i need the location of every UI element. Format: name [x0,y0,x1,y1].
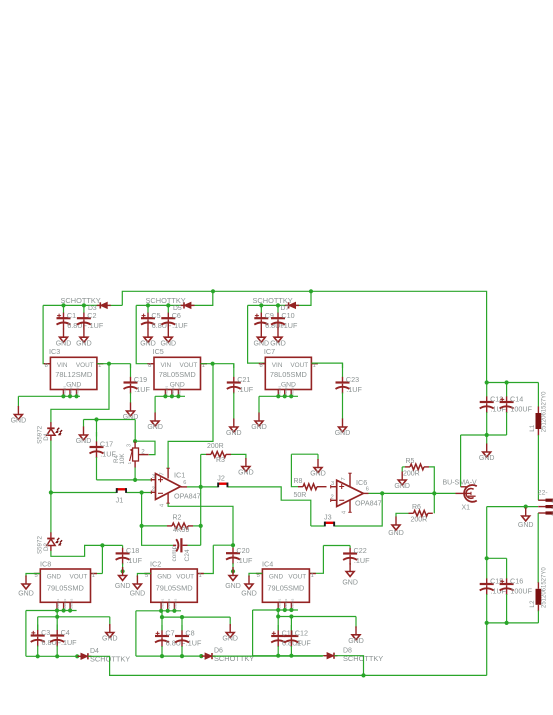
wire J2 to IC6 -in net [228,487,311,526]
svg-text:.1UF: .1UF [126,556,142,565]
resistor R5 [405,464,429,470]
wire IC1 V- to -5V rail [168,503,233,545]
svg-text:200R: 200R [411,517,428,524]
capacitor C5 [141,305,172,329]
svg-text:3: 3 [152,474,155,480]
wire C12 top pin [290,617,292,631]
label 200R R6 [411,517,428,524]
node C12 bottom [289,654,293,658]
ground IC4 [241,576,257,598]
node C2 tap [82,303,86,307]
svg-text:6: 6 [183,480,186,486]
wire IC4 mid rail [278,616,356,618]
SMA connector X1 [443,479,478,511]
connector pin 3 [538,511,553,516]
wire gnd stub C13 [486,435,488,444]
wire D2 to -5V IC8 [51,545,103,556]
svg-text:C4: C4 [61,628,70,637]
node C10 tap [276,303,280,307]
capacitor C12 [284,625,311,648]
svg-text:C14: C14 [510,395,523,404]
svg-text:GND: GND [147,424,163,431]
resistor R6 [409,510,433,516]
svg-text:.1UF: .1UF [172,321,188,330]
jumper J3 [324,513,335,527]
capacitor C23 [336,363,363,394]
wire block2 rail [136,304,184,306]
label R6 [412,504,421,511]
resistor R2 [167,523,193,529]
label IC3 [49,347,60,356]
svg-text:IC3: IC3 [49,347,60,356]
capacitor C9 [254,305,285,329]
node IC2 pin [172,609,176,613]
wire C11 pin vertical [277,610,279,631]
capacitor C20 [226,545,253,565]
wire IC4 gnd pin [249,573,262,577]
wire D7 to top rail [296,291,312,305]
wire C11 bottom [277,646,279,656]
svg-text:GND: GND [157,574,172,581]
svg-text:GND: GND [342,579,358,586]
capacitor C10 [271,305,298,329]
svg-text:GND: GND [348,638,364,645]
capacitor C4 [50,625,77,648]
wire D8 down [334,656,363,676]
svg-text:100UF: 100UF [510,405,532,414]
wire IC1 output [187,486,218,488]
wire C17 top pin [96,420,98,437]
node IC4 pin [289,608,293,612]
node IC5 gnd pin [163,394,167,398]
node IC3 gnd pin [61,394,65,398]
voltage regulator [44,357,104,396]
label D6 [214,648,223,655]
wire IC7 gnd pins rail [259,395,298,397]
wire to gnd IC4 mid [355,617,357,629]
wire +input line [97,479,152,481]
node C8 bottom [180,654,184,658]
wire output to X1 [369,492,456,494]
svg-text:VIN: VIN [161,362,172,369]
svg-text:GND@2: GND@2 [284,598,288,609]
svg-text:GND: GND [238,470,254,477]
node +in junction [133,478,137,482]
node R2 right junction [199,524,203,528]
wire IC5 gnd pins rail [155,395,185,397]
svg-text:GND: GND [479,455,495,462]
wire to gnd C17net [83,420,85,428]
svg-text:C3: C3 [41,628,50,637]
node IC2 pin [159,609,163,613]
svg-text:GND: GND [269,574,284,581]
op-amp IC1 [156,474,181,500]
capacitor C24 [171,538,191,561]
svg-text:comp: comp [171,545,178,561]
svg-text:VOUT: VOUT [180,362,198,369]
node D1-D2 junction [49,490,53,494]
svg-text:10K: 10K [119,453,126,465]
schottky diode D6 [202,653,216,659]
svg-text:1: 1 [313,363,316,369]
wire R6 left to gnd [396,513,409,517]
ground C13C14 [479,444,495,463]
label IC8 [40,560,51,569]
R8 right pin [322,486,327,488]
svg-text:C12: C12 [295,629,308,638]
wire IC1 V+ from IC5 [168,364,213,468]
svg-text:L2: L2 [529,600,536,608]
wire IC4 bottom rail [253,655,326,657]
capacitor C14 [500,383,533,414]
op-amp IC1 pins [151,468,201,507]
wire IC4 VOUT up [309,546,323,574]
node IC7 gnd pin [283,394,287,398]
svg-text:79L05SMD: 79L05SMD [267,584,304,593]
label SCHOTTKY D4 [90,654,130,663]
svg-text:IC4: IC4 [262,560,273,569]
wire +12V top rail [122,291,486,382]
wire IC8 VOUT [91,573,103,575]
wire R3 to gnd [231,454,246,458]
svg-text:78L12SMD: 78L12SMD [55,370,92,379]
svg-text:IC2: IC2 [150,560,161,569]
node C13 top [485,380,489,384]
wire feedback vertical [200,454,202,545]
wire IC2 mid rail [162,616,230,618]
wire IC2 gnd pin [137,574,150,578]
svg-text:C21: C21 [237,375,250,384]
svg-text:GND: GND [310,471,326,478]
wire block1 rail [43,304,99,306]
svg-text:.1UF: .1UF [186,639,202,648]
svg-text:.1UF: .1UF [238,385,254,394]
wire D6 to D8 [212,655,323,657]
node C12 top [289,614,293,618]
wire to gnd IC2 mid [229,617,231,626]
wire IC8 left drop [25,611,27,657]
wire C12 bottom [290,646,292,656]
svg-text:R8: R8 [294,478,303,485]
wire D4 to common rail [88,656,363,675]
label 200R R3 [207,443,224,450]
wire J1 tap down to C24 [142,493,173,546]
wire C14 bottom [506,412,508,435]
wire D1-D2 vertical [50,493,52,533]
wire C18 to gnd [122,563,124,571]
wire IC8 pins rail [26,610,77,612]
resistor R8 [298,484,322,490]
svg-text:1: 1 [311,573,314,579]
label R3 [216,457,225,464]
svg-text:X1: X1 [462,505,471,512]
node J1 feedback tap [140,490,144,494]
node IC5 gnd pin [170,394,174,398]
svg-text:GND@2: GND@2 [63,598,67,609]
node IC7 gnd pin [276,394,280,398]
svg-text:4: 4 [342,511,348,514]
svg-text:7: 7 [341,477,347,480]
node C15 top [485,556,489,560]
svg-text:C10: C10 [281,311,294,320]
wire to gnd IC8 mid [109,617,111,626]
wire R8 left [291,454,298,487]
svg-text:8: 8 [148,363,151,369]
svg-text:BU-SMA-V: BU-SMA-V [443,479,478,486]
svg-text:R3: R3 [216,457,225,464]
wire rail to IC3 VIN [43,305,50,363]
svg-text:8: 8 [259,363,262,369]
label SCHOTTKY D8 [343,654,383,663]
svg-text:C16: C16 [510,577,523,586]
svg-text:GND: GND [388,530,404,537]
ground IC8 mid [102,624,118,643]
ground C9 [254,329,270,348]
wire J3 net right [335,493,383,526]
wire pot wiper loop [135,441,155,454]
wire R5 to output [429,467,434,494]
svg-text:1: 1 [127,461,132,464]
node IC2 pin [166,609,170,613]
wire X1 shield up [460,435,462,487]
capacitor C18 [116,545,143,565]
wire C20 to gnd [232,563,234,571]
label D8 [343,648,352,655]
node C16 bottom junction [505,621,509,625]
label IC4 [262,560,273,569]
svg-text:SCHOTTKY: SCHOTTKY [214,654,254,663]
wire to gnd b2 [154,396,156,413]
wire C8 top pin [181,617,183,630]
svg-text:GND: GND [335,430,351,437]
svg-text:VOUT: VOUT [288,574,306,581]
X1 shield pin [461,486,467,488]
node C11 mid tap [276,614,280,618]
capacitor C15 [480,558,507,595]
svg-text:200R: 200R [207,443,224,450]
node R5 R6 junction [432,491,436,495]
wire gnd stub conn [525,507,527,509]
node output junction [380,491,384,495]
wire IC2 bottom rail [136,655,200,657]
node C8 top [180,615,184,619]
svg-text:VIN: VIN [57,362,68,369]
svg-text:3: 3 [127,444,133,447]
capacitor C7 [155,625,186,648]
svg-text:GND: GND [76,340,92,347]
wire C8 bottom [181,646,183,656]
ground R5 [394,472,410,491]
svg-text:C8: C8 [185,629,194,638]
wire L1 to connector pin1 [537,435,539,500]
node IC1 output junction [199,485,203,489]
svg-text:GND: GND [130,591,146,598]
wire C4 bottom [56,646,58,657]
svg-text:GND: GND [11,418,27,425]
wire C17 top net [84,419,136,421]
wire connector mid pin [487,506,538,508]
node C3 bottom [36,654,40,658]
svg-text:GND: GND [394,483,410,490]
node top-rail junction IC5 [211,289,215,293]
ground IC3 pins [11,406,27,425]
wire D1 anode down [50,441,52,493]
label R5 [406,458,415,465]
node C4 top [55,615,59,619]
node IC5 out junction [211,362,215,366]
node C7 bottom [160,654,164,658]
capacitor C1 [57,305,88,329]
label IC5 [153,347,164,356]
node IC8 -5V [100,543,104,547]
wire pot bottom [134,467,136,480]
svg-text:GND: GND [518,522,534,529]
svg-text:GND: GND [18,591,34,598]
node C5 tap [146,303,150,307]
svg-text:.1UF: .1UF [295,639,311,648]
svg-text:J1: J1 [116,496,124,505]
wire C13 bottom [486,412,488,435]
svg-text:2: 2 [141,448,145,455]
svg-text:GND: GND [47,574,62,581]
svg-text:IC1: IC1 [174,470,185,479]
svg-text:C2: C2 [87,311,96,320]
op-amp IC6 pins [330,473,381,514]
wire L2 to rail [537,611,539,623]
svg-text:.1UF: .1UF [346,385,362,394]
ground IC8 [18,576,34,598]
ground C10 [270,329,286,348]
svg-text:C19: C19 [134,375,147,384]
svg-text:C1: C1 [67,311,76,320]
svg-text:GND@1: GND@1 [277,598,281,609]
svg-text:IC8: IC8 [40,560,51,569]
svg-text:78L05SMD: 78L05SMD [159,370,196,379]
node IC8 pin [62,608,66,612]
ground IC4 mid [348,626,364,645]
svg-text:C5: C5 [151,311,160,320]
node IC4 pin [276,608,280,612]
ground R6 [388,517,404,538]
label R8 [294,478,303,485]
wire C21 to gnd [233,393,235,420]
svg-text:C18: C18 [126,546,139,555]
label 200R R5 [403,471,420,478]
ground R8 [310,459,326,478]
wire IC5 VOUT to C21 [201,364,234,368]
svg-text:200R: 200R [403,471,420,478]
label 50R [294,492,307,499]
svg-text:C6: C6 [172,311,181,320]
op-amp IC6 [337,480,364,506]
capacitor C2 [77,305,104,329]
label IC2 [150,560,161,569]
ground IC5 pins [147,413,163,432]
node connector gnd [524,505,528,509]
node C18 gnd dot [121,569,125,573]
svg-text:GND: GND [123,414,139,421]
wire R5 left [402,466,405,468]
ground C6 [161,329,177,348]
resistor R3 [206,452,231,458]
wire R5 gnd stub [401,467,403,472]
svg-text:C17: C17 [100,440,113,449]
wire bottom rail right [364,674,487,676]
wire +12V to L1 [487,382,539,384]
svg-text:GND: GND [241,591,257,598]
node C13C14 gnd junction [485,433,489,437]
ground C18 [115,567,131,590]
schottky diode D5 [181,302,195,308]
svg-text:IC7: IC7 [264,347,275,356]
ground C23 [335,419,351,438]
wire J1 line left [51,492,116,494]
svg-text:GND: GND [102,636,118,643]
wire to gnd b3 [258,396,260,413]
wire rail to IC7 VIN [248,305,266,363]
svg-text:J3: J3 [324,513,332,522]
wire IC8 bottom rail [26,655,76,657]
wire IC8 mid rail [38,616,110,618]
ground C2 [76,329,92,348]
svg-text:.1UF: .1UF [88,321,104,330]
wire -5V to C18 [102,544,122,546]
wire J3 net left [311,525,325,527]
wire link IC8 [56,611,58,617]
voltage regulator [34,569,97,609]
photodiode D1 [37,422,62,444]
svg-text:GND@1: GND@1 [160,598,164,609]
node IC3 gnd pin [74,394,78,398]
photodiode D2 [37,532,62,554]
svg-text:2512061527Y0: 2512061527Y0 [542,567,548,608]
node C11 bottom [276,654,280,658]
label D3 [88,305,97,312]
node C17 tap [94,417,98,421]
ground C20 [225,567,241,590]
label 4K99 [173,527,189,534]
wire R2 right seg [193,525,201,527]
node IC3 gnd pin [68,394,72,398]
wire block3 rail [248,304,289,306]
svg-text:SCHOTTKY: SCHOTTKY [61,296,101,305]
schottky diode D8 [324,653,338,659]
node C1 tap [61,303,65,307]
wire C4 top pin [56,617,58,630]
node D6 anode [199,654,203,658]
svg-text:GND@1: GND@1 [56,598,60,609]
label D5 [173,305,182,312]
wire D3 to rail drop [109,304,123,306]
label D7 [281,305,290,312]
wire to gnd b1 [17,396,19,406]
inductor L1 [529,391,548,436]
ground IC2 [130,576,146,598]
capacitor C3 [31,625,62,648]
wire C22 to gnd [349,564,351,566]
svg-text:8: 8 [45,363,48,369]
node C7 mid tap [160,615,164,619]
capacitor C19 [124,364,151,394]
voltage regulator [148,357,208,396]
svg-text:79L05SMD: 79L05SMD [156,584,193,593]
label SCHOTTKY D6 [214,654,254,663]
schottky diode D7 [285,302,299,308]
wire to C19 [130,364,132,368]
jumper J1 [116,488,127,505]
svg-text:.1UF: .1UF [134,385,150,394]
wire C24 right to node [188,544,201,546]
